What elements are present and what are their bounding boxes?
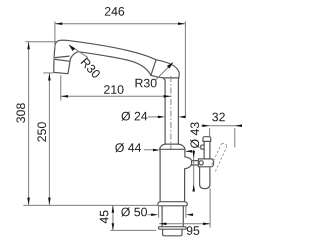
dimension diameter 43 xyxy=(190,122,199,191)
side outlet boss xyxy=(185,157,199,169)
spout left bend inner edge xyxy=(70,52,78,60)
spout arm bottom edge xyxy=(78,52,151,76)
dimension 210 xyxy=(61,75,171,100)
spout right bend outer edge xyxy=(156,60,179,144)
spout right bend inner edge xyxy=(151,75,165,144)
base flange xyxy=(158,202,188,206)
radius label R30 left xyxy=(69,45,101,79)
spray lever clip xyxy=(201,145,204,150)
spray hose body xyxy=(200,167,210,189)
dimension diameter 44 xyxy=(115,143,192,153)
spout outlet tube xyxy=(54,48,71,74)
dimension 95 xyxy=(159,188,210,235)
dimension diameter 50 xyxy=(121,207,193,218)
radius label R30 right xyxy=(136,62,174,87)
spout arm top edge xyxy=(67,40,157,60)
dimension 250 xyxy=(37,73,53,205)
mounting nut xyxy=(159,227,187,236)
spout left bend joint lines xyxy=(55,56,70,61)
body shoulder xyxy=(160,144,185,149)
mounting shank xyxy=(162,206,183,227)
riser top joint line xyxy=(164,77,179,79)
dimension 45 xyxy=(100,205,156,230)
spray lever tube xyxy=(204,141,210,159)
dimension diameter 24 xyxy=(121,112,185,121)
dimension 246 xyxy=(55,7,186,117)
spray lever cap xyxy=(203,137,211,142)
dimension 32 xyxy=(201,113,242,148)
spray holder bracket xyxy=(198,159,213,167)
riser centerline xyxy=(170,76,172,150)
spout right bend joint line xyxy=(151,60,156,76)
phantom lever line 1 xyxy=(210,144,222,169)
countertop line xyxy=(23,204,158,206)
phantom lever line 2 xyxy=(215,147,227,172)
phantom lever cap xyxy=(222,143,227,146)
body cylinder xyxy=(160,149,185,201)
dimension 308 xyxy=(16,42,57,205)
spray hose ring xyxy=(199,161,203,165)
spout left bend outer edge xyxy=(55,40,67,47)
